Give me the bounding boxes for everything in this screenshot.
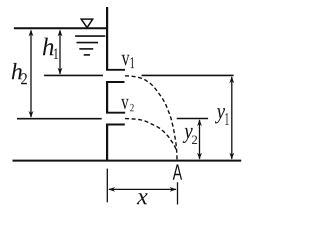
dimension h2 top arrowhead [29, 29, 34, 36]
dimension h2 vertical line [30, 31, 32, 118]
label v2 (v) [121, 99, 128, 109]
lower orifice top stub [106, 112, 125, 114]
label y1 (italic y) [215, 108, 225, 123]
tank right wall middle segment [106, 81, 108, 113]
label y2 (italic y) [183, 128, 193, 143]
lower orifice bottom stub [106, 124, 125, 126]
water hatch line 3 [79, 48, 93, 50]
label h1 subscript 1 [54, 49, 58, 59]
dimension y2 bottom arrowhead [197, 153, 202, 160]
y2 level line [177, 118, 208, 120]
dimension y1 vertical line [231, 77, 233, 159]
water hatch line 4 [84, 54, 90, 56]
dimension h1 vertical line [59, 31, 61, 75]
label y2 subscript 2 [192, 136, 197, 144]
x dimension left arrowhead [108, 187, 115, 192]
dimension y1 bottom arrowhead [229, 153, 234, 160]
label h2 subscript 2 [21, 73, 27, 84]
label x (italic) [137, 193, 148, 204]
label v1 (v) [122, 55, 130, 66]
upper orifice top stub [106, 69, 125, 71]
tank right wall lower segment [106, 124, 108, 162]
x dimension right arrowhead [170, 187, 177, 192]
h1 level line [44, 74, 103, 76]
dimension h1 bottom arrowhead [58, 68, 63, 75]
dimension y2 top arrowhead [197, 119, 202, 126]
ground line [13, 160, 242, 162]
x dimension horizontal line [109, 188, 176, 190]
dimension y1 top arrowhead [229, 76, 234, 83]
water hatch line 2 [77, 42, 99, 44]
h2 level line [17, 118, 102, 120]
water hatch line 1 [75, 35, 105, 37]
label h1 (italic h) [43, 38, 54, 56]
label h2 (italic h) [12, 63, 22, 79]
x dimension extension line below wall [106, 169, 108, 203]
dimension h2 bottom arrowhead [29, 111, 34, 118]
jet trajectory from lower orifice (dashed) [125, 119, 176, 150]
label v2 subscript 2 [130, 104, 134, 111]
upper orifice bottom stub [106, 81, 125, 83]
x dimension extension line below point A [177, 182, 179, 204]
label A landing point [173, 164, 182, 179]
free-surface triangle symbol [81, 19, 93, 28]
dimension y2 vertical line [199, 120, 201, 159]
label v1 subscript 1 [130, 57, 134, 68]
label y1 subscript 1 [225, 113, 228, 125]
dimension h1 top arrowhead [58, 29, 63, 36]
tank right wall upper segment [106, 7, 108, 71]
v1 level line [142, 74, 234, 76]
water surface line [14, 27, 108, 29]
jet trajectory from upper orifice (dashed) [125, 76, 177, 160]
